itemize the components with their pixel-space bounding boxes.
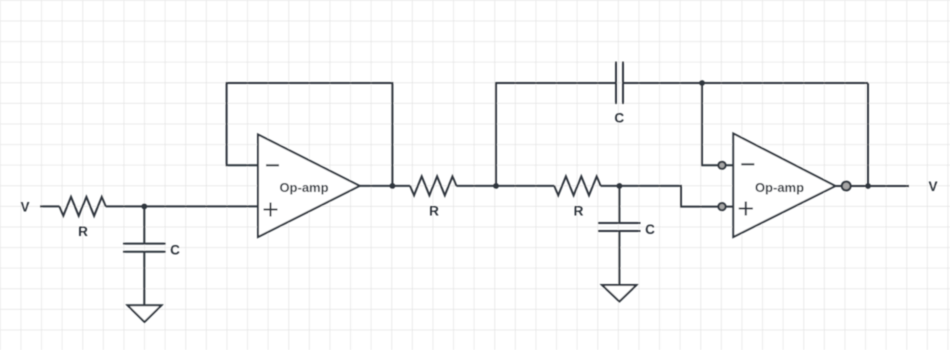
junction node D dot xyxy=(617,183,623,189)
svg-text:R: R xyxy=(429,204,439,219)
wire U1 feedback loop xyxy=(227,83,393,186)
wire U2 output to Vout xyxy=(835,185,909,187)
wire node B up to feedback rail xyxy=(496,83,616,186)
junction node B dot xyxy=(493,183,499,189)
op-amp U2 plus mark xyxy=(739,202,753,216)
wire R3 to node D xyxy=(601,185,620,187)
capacitor C3 xyxy=(598,223,641,231)
wire C2 to right feedback corner xyxy=(623,82,868,84)
wire node D down to C3 xyxy=(618,186,620,223)
junction node C dot on rail xyxy=(699,80,705,86)
resistor R2 xyxy=(410,176,456,195)
junction node A dot xyxy=(141,204,147,210)
svg-text:C: C xyxy=(170,242,180,257)
resistor R3 xyxy=(554,176,600,195)
wire feedback down to U2 output node xyxy=(867,83,869,186)
wire U1 output xyxy=(360,185,393,187)
U2 minus input terminal xyxy=(718,162,725,169)
svg-text:C: C xyxy=(645,222,655,237)
op-amp U1 plus mark xyxy=(264,203,278,217)
ground 2 xyxy=(602,285,637,302)
wire C1 to ground xyxy=(143,252,145,306)
wire R2 to node B xyxy=(456,185,496,187)
junction U1 output dot xyxy=(390,183,396,189)
U2 plus input terminal xyxy=(718,203,725,210)
ground 1 xyxy=(128,305,162,322)
svg-text:Op-amp: Op-amp xyxy=(279,180,328,195)
wire C3 to ground xyxy=(618,231,620,285)
svg-text:R: R xyxy=(78,224,88,239)
capacitor C2 xyxy=(616,62,623,105)
wire node B to R3 xyxy=(496,185,554,187)
capacitor C1 xyxy=(123,244,166,252)
wire node A down to C1 xyxy=(143,206,145,243)
op-amp U2 xyxy=(733,134,835,238)
svg-text:C: C xyxy=(614,110,624,125)
svg-text:V: V xyxy=(928,179,937,194)
svg-text:R: R xyxy=(574,204,584,219)
wire node D to U2 plus input xyxy=(619,186,733,207)
node Vin label wire xyxy=(40,205,59,207)
op-amp U1 xyxy=(258,135,360,238)
junction U2 output dot xyxy=(865,183,871,189)
resistor R1 xyxy=(59,197,105,216)
op-amp U2 minus mark xyxy=(741,163,754,165)
wire R1 to node A xyxy=(106,205,145,207)
U2 output terminal xyxy=(842,182,851,191)
wire U1 output to R2 xyxy=(392,185,410,187)
svg-text:Op-amp: Op-amp xyxy=(755,180,804,195)
wire node C tap to U2 minus input xyxy=(702,83,733,165)
op-amp U1 minus mark xyxy=(266,164,279,166)
wire node A to op-amp U1 + input xyxy=(144,205,258,207)
svg-text:V: V xyxy=(20,199,29,214)
